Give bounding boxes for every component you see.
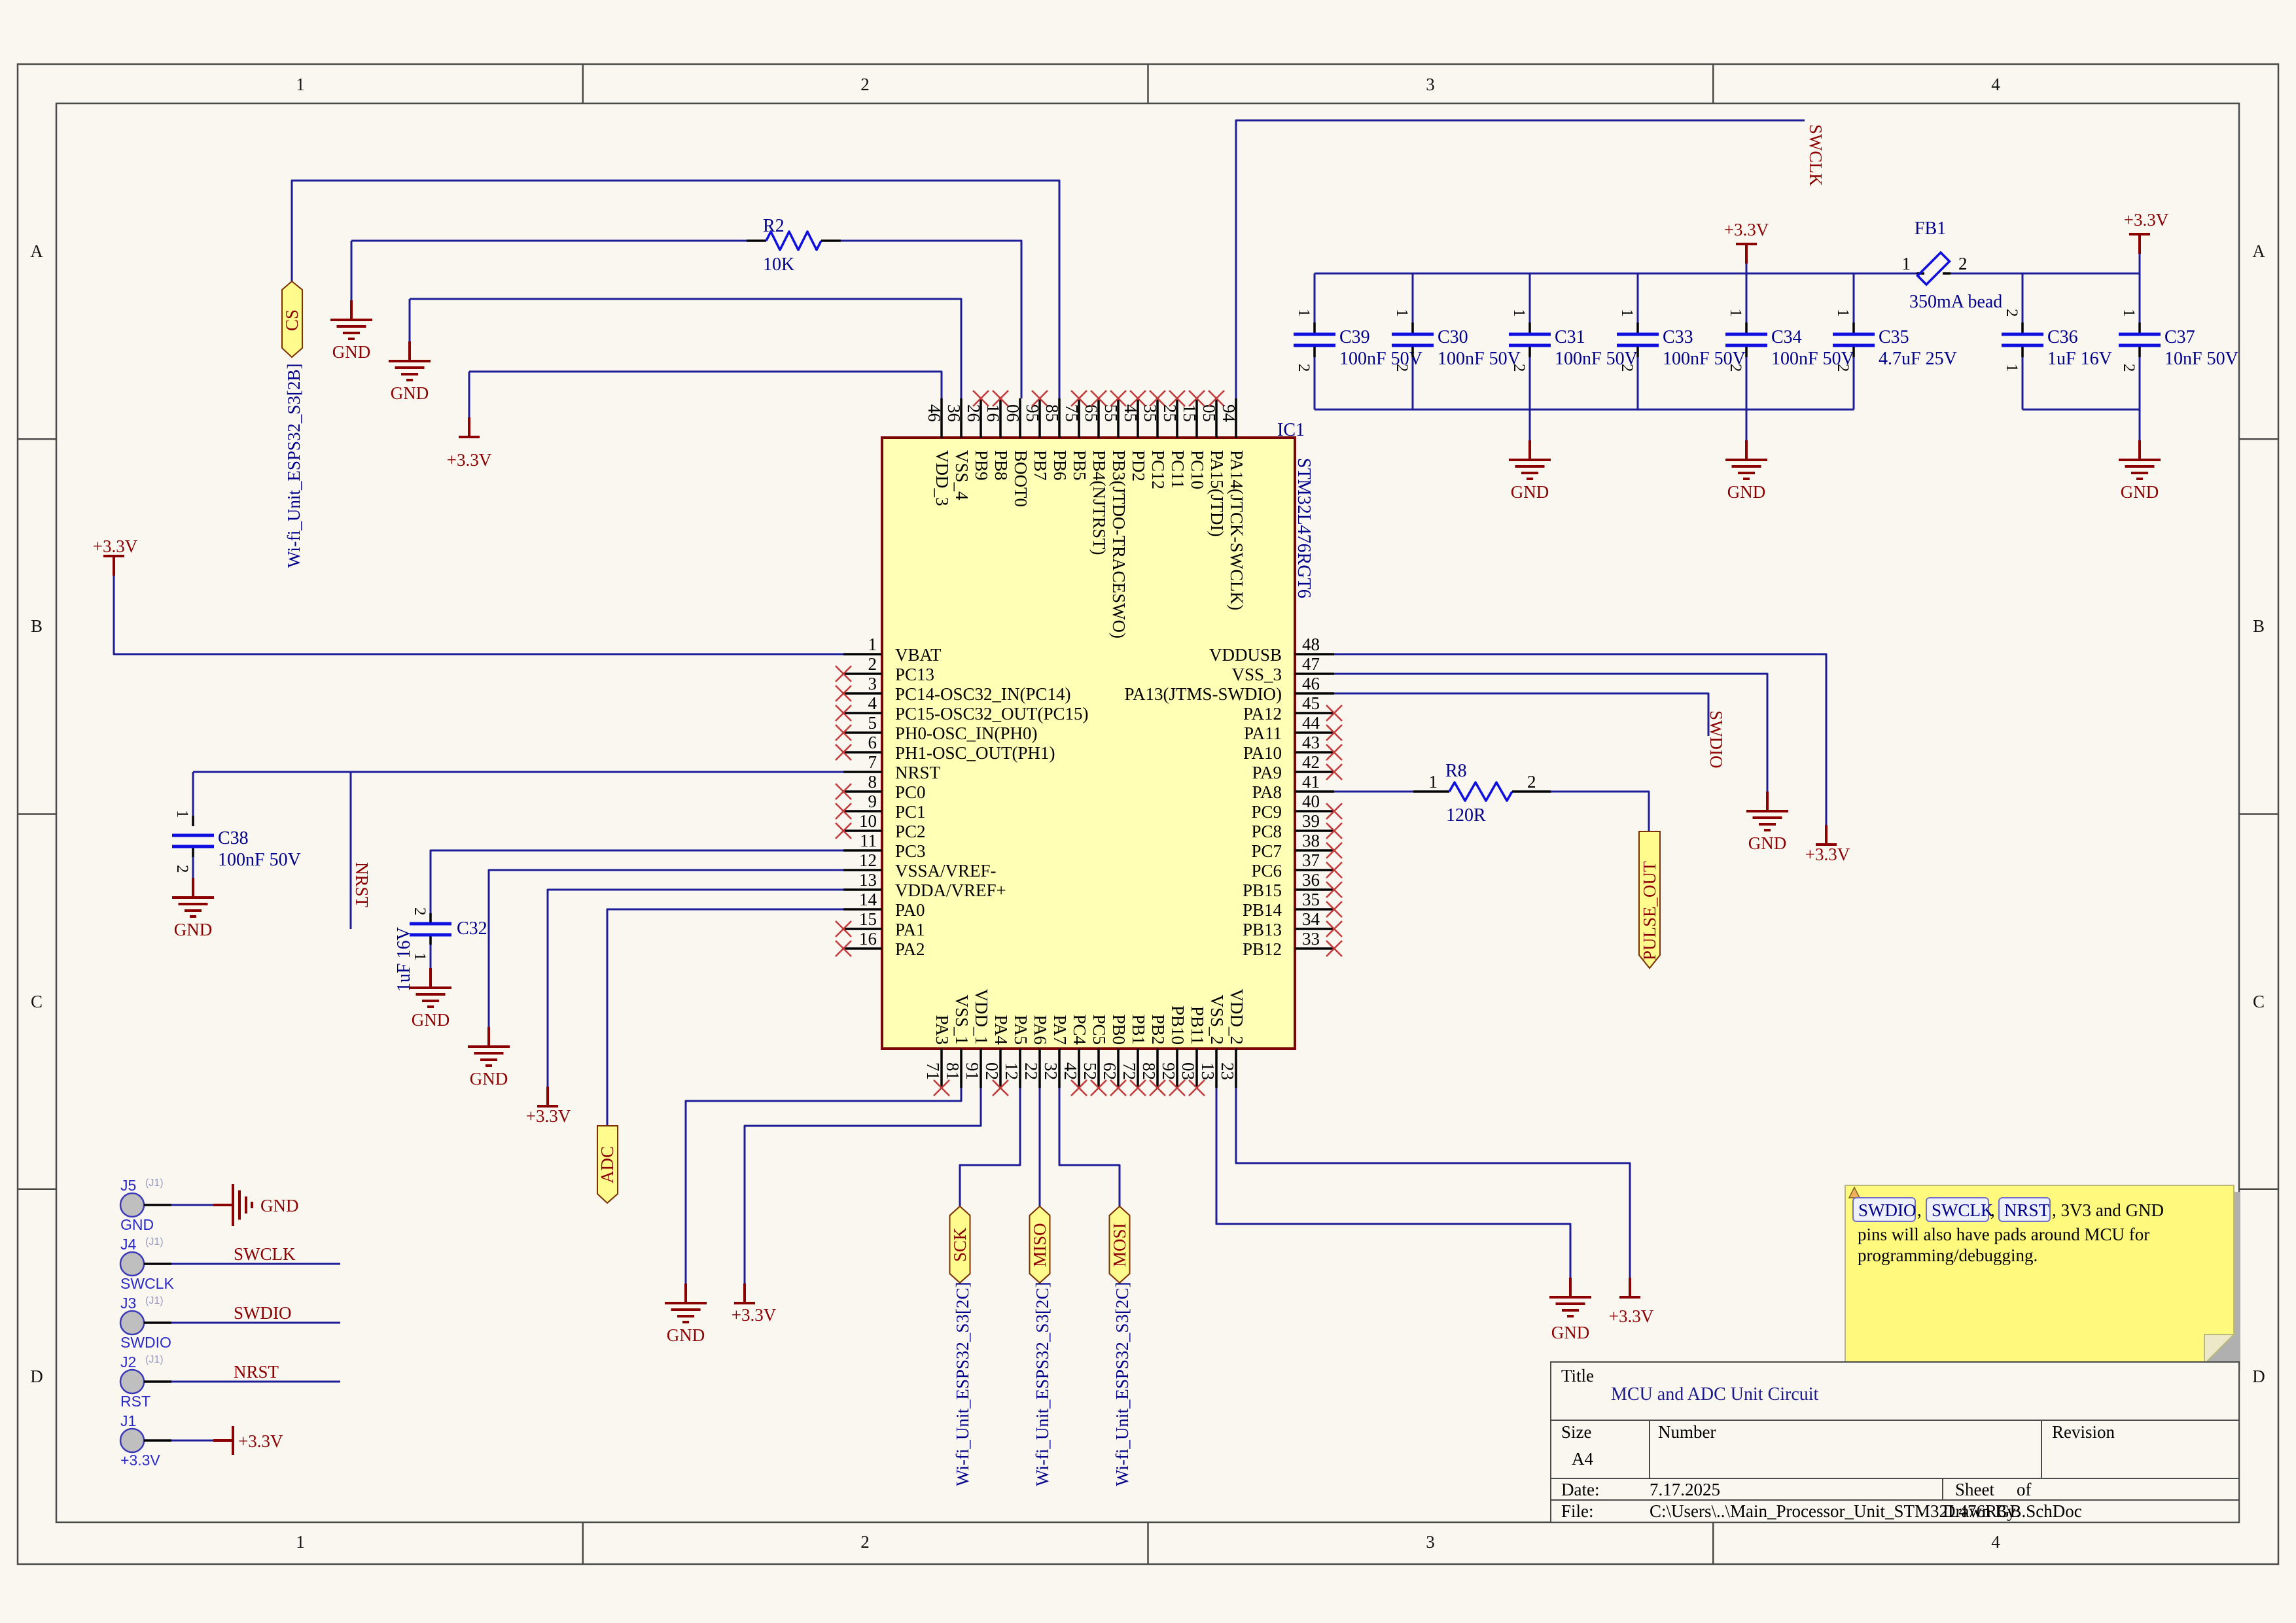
wire SCK pin21 [960,1088,1020,1208]
svg-text:Date:: Date: [1561,1480,1599,1499]
svg-text:PB0: PB0 [1109,1014,1129,1045]
svg-text:,: , [1990,1200,1995,1220]
svg-text:ADC: ADC [597,1146,617,1183]
svg-text:J3: J3 [120,1295,136,1312]
svg-text:42: 42 [1061,1062,1080,1080]
svg-text:programming/debugging.: programming/debugging. [1858,1246,2038,1265]
power +3.3V (VDDA) [526,1087,571,1126]
svg-text:GND: GND [470,1069,508,1089]
svg-text:PA4: PA4 [991,1015,1011,1045]
svg-text:GND: GND [1748,833,1787,853]
svg-text:VSS_1: VSS_1 [952,994,972,1045]
svg-text:9: 9 [868,792,877,811]
svg-text:13: 13 [1198,1062,1218,1080]
sheet entry label Wi-fi_Unit_ESPS32_S3[2C] [953,1282,972,1486]
svg-text:4: 4 [868,693,877,713]
pin 15 PA1 [836,909,925,939]
svg-text:R2: R2 [763,216,785,236]
svg-text:10K: 10K [763,254,794,275]
svg-text:PB13: PB13 [1243,920,1282,939]
svg-text:C31: C31 [1555,327,1585,347]
pin 27 PB1 [1120,1014,1148,1096]
svg-text:SWDIO: SWDIO [1706,710,1726,769]
capacitor C31 100nF 50V [1509,309,1638,372]
svg-text:Revision: Revision [2052,1422,2115,1442]
svg-text:1: 1 [868,635,877,654]
svg-text:92: 92 [1159,1062,1178,1080]
wire VSS_3 pin47 to gnd [1334,674,1767,792]
svg-text:C33: C33 [1663,327,1693,347]
svg-text:14: 14 [859,890,877,909]
wire to ground [409,299,411,341]
svg-text:File:: File: [1561,1501,1594,1521]
wire BOOT0 net left [351,240,747,242]
wire PA0 pin14 to ADC port [607,909,843,1126]
svg-text:C36: C36 [2047,327,2078,347]
svg-text:PC1: PC1 [895,802,926,822]
svg-text:1uF 16V: 1uF 16V [2047,349,2112,369]
svg-text:(J1): (J1) [145,1178,164,1189]
svg-text:+3.3V: +3.3V [120,1452,160,1469]
svg-text:VDDUSB: VDDUSB [1209,645,1282,665]
wire VSS_1 pin18 to gnd [686,1088,961,1283]
pin 26 PB0 [1100,1014,1129,1096]
svg-text:1: 1 [2120,309,2138,317]
svg-text:C30: C30 [1438,327,1468,347]
svg-text:D: D [2252,1367,2265,1386]
svg-text:25: 25 [1160,404,1180,422]
svg-text:2: 2 [1295,364,1313,372]
svg-text:A: A [2252,241,2265,261]
svg-text:45: 45 [1302,693,1320,713]
svg-text:R8: R8 [1445,761,1467,781]
svg-text:1: 1 [1727,309,1744,317]
wire VDDA pin13 [548,890,843,1087]
svg-text:GND: GND [412,1010,450,1030]
pin 50 PA15(JTDI) [1199,391,1227,537]
svg-text:1: 1 [1510,309,1528,317]
svg-text:GND: GND [667,1325,705,1345]
svg-text:NRST: NRST [2004,1200,2050,1220]
svg-text:PB6: PB6 [1050,450,1070,481]
svg-text:PC14-OSC32_IN(PC14): PC14-OSC32_IN(PC14) [895,684,1071,704]
wire gnd drop [1529,410,1531,440]
svg-text:2: 2 [1834,364,1852,372]
pin 53 PC12 [1140,391,1168,489]
svg-text:2: 2 [1393,364,1411,372]
power +3.3V (VDD_2) [1609,1278,1654,1326]
svg-text:2: 2 [1618,364,1636,372]
svg-text:94: 94 [1219,404,1239,423]
resistor R8 120R [1413,761,1551,826]
svg-text:16: 16 [859,929,877,949]
svg-text:4.7uF 25V: 4.7uF 25V [1879,349,1957,369]
svg-text:32: 32 [1041,1062,1061,1080]
svg-text:A: A [30,241,43,261]
svg-text:, 3V3 and GND: , 3V3 and GND [2052,1200,2164,1220]
svg-text:PA15(JTDI): PA15(JTDI) [1207,450,1227,537]
svg-text:NRST: NRST [352,862,372,908]
capacitor C38 100nF 50V [172,810,301,873]
svg-text:PB7: PB7 [1031,450,1050,481]
svg-text:03: 03 [1178,1062,1198,1080]
svg-text:PC2: PC2 [895,822,926,841]
svg-text:D: D [30,1367,43,1386]
pin 17 PA3 [923,1015,952,1096]
svg-text:PA6: PA6 [1031,1015,1050,1045]
ground GND [2119,440,2161,502]
IC IC1 STM32L476RGT6 MCU body [882,438,1295,1049]
svg-text:PH0-OSC_IN(PH0): PH0-OSC_IN(PH0) [895,724,1038,743]
svg-text:Title: Title [1561,1366,1594,1386]
wire +3.3V bus right [1951,273,2140,275]
wire GND bus right group [2022,409,2140,411]
wire cap C39 top [1314,273,1316,323]
svg-text:PA14(JTCK-SWCLK): PA14(JTCK-SWCLK) [1227,450,1246,610]
svg-text:J2: J2 [120,1353,136,1370]
svg-text:PC0: PC0 [895,782,926,802]
net label SWCLK [234,1244,296,1264]
svg-text:VSS_4: VSS_4 [952,450,972,500]
wire C38 to gnd [192,857,194,878]
pin 32 VDD_2 [1218,989,1246,1089]
svg-text:4: 4 [1991,75,2000,94]
svg-text:350mA bead: 350mA bead [1909,292,2002,312]
pin 18 VSS_1 [943,994,972,1088]
svg-text:95: 95 [1023,404,1042,422]
pin 35 PB14 [1243,890,1342,920]
svg-text:MOSI: MOSI [1110,1223,1129,1267]
svg-text:15: 15 [1180,404,1199,422]
pin 40 PC9 [1251,792,1342,822]
pin 28 PB2 [1139,1014,1168,1096]
svg-text:PA8: PA8 [1252,782,1282,802]
svg-text:PB12: PB12 [1243,939,1282,959]
title block [1551,1362,2239,1522]
pin 3 PC14-OSC32_IN(PC14) [836,674,1071,704]
svg-text:PC7: PC7 [1251,841,1282,861]
svg-text:91: 91 [963,1062,982,1080]
svg-text:IC1: IC1 [1277,420,1305,440]
svg-text:SWDIO: SWDIO [234,1303,292,1323]
svg-text:Drawn By:: Drawn By: [1943,1501,2021,1521]
pin 11 PC3 [843,831,926,861]
pin 48 VDDUSB [1209,635,1334,665]
pin 23 PA7 [1041,1015,1070,1088]
svg-text:PA1: PA1 [895,920,925,939]
ground GND (C38) [172,878,214,939]
svg-text:Wi-fi_Unit_ESPS32_S3[2C]: Wi-fi_Unit_ESPS32_S3[2C] [1112,1282,1132,1486]
svg-text:PB5: PB5 [1070,450,1089,481]
svg-text:VSSA/VREF-: VSSA/VREF- [895,861,997,881]
svg-text:J5: J5 [120,1177,136,1194]
svg-text:39: 39 [1302,811,1320,831]
capacitor C30 100nF 50V [1392,309,1521,372]
power +3.3V (VBAT) [93,536,138,576]
ground GND (VSS_1) [665,1283,707,1345]
wire BOOT0 net right to pin60 [841,241,1021,398]
wire VDD_3 pin64 [469,372,942,398]
pin 12 VSSA/VREF- [843,850,997,881]
svg-text:VSS_3: VSS_3 [1231,665,1282,684]
pin 55 PB3(JTDO-TRACESWO) [1101,391,1129,638]
svg-text:of: of [2017,1480,2032,1499]
svg-text:SWDIO: SWDIO [120,1334,171,1351]
wire J1 +3.3V [171,1440,233,1442]
svg-text:12: 12 [859,850,877,870]
capacitor C37 10nF 50V [2119,309,2238,372]
wire cap C35 bottom [1853,357,1855,410]
svg-text:02: 02 [982,1062,1002,1080]
svg-text:VDDA/VREF+: VDDA/VREF+ [895,881,1006,900]
pin 54 PD2 [1121,391,1148,481]
svg-text:35: 35 [1302,890,1320,909]
pin 60 BOOT0 [1003,398,1031,507]
svg-text:71: 71 [923,1062,943,1080]
svg-text:(J1): (J1) [145,1295,164,1306]
svg-text:C: C [31,992,43,1011]
pin 19 VDD_1 [963,989,991,1089]
svg-text:Sheet: Sheet [1955,1480,1994,1499]
svg-text:37: 37 [1302,850,1320,870]
svg-text:2: 2 [1527,772,1536,792]
pin 34 PB13 [1243,909,1342,939]
svg-text:VDD_2: VDD_2 [1227,989,1246,1045]
svg-text:1: 1 [173,810,191,818]
svg-text:23: 23 [1218,1062,1237,1080]
svg-text:2: 2 [1727,364,1744,372]
svg-text:PC11: PC11 [1168,450,1188,489]
pin 58 PB6 [1042,398,1070,481]
svg-text:05: 05 [1199,404,1219,422]
svg-text:SWCLK: SWCLK [234,1244,296,1264]
svg-text:Number: Number [1658,1422,1716,1442]
svg-text:22: 22 [1021,1062,1041,1080]
sheet entry label Wi-fi_Unit_ESPS32_S3[2C] [1112,1282,1132,1486]
svg-text:VBAT: VBAT [895,645,942,665]
port SCK [950,1206,970,1283]
net label SWDIO [1706,710,1726,769]
pin 24 PC4 [1061,1014,1089,1096]
svg-text:62: 62 [1100,1062,1120,1080]
svg-text:46: 46 [1302,674,1320,693]
svg-text:J4: J4 [120,1236,137,1253]
pin 38 PC7 [1251,831,1342,861]
wire PA8 pin41 to R8 [1334,791,1413,793]
pin 61 PB8 [983,391,1011,481]
svg-text:1: 1 [1429,772,1438,792]
svg-text:48: 48 [1302,635,1320,654]
svg-text:5: 5 [868,713,877,733]
svg-text:36: 36 [1302,870,1320,890]
svg-text:75: 75 [1062,404,1082,422]
pin 16 PA2 [836,929,925,959]
svg-text:B: B [31,616,43,636]
svg-text:GND: GND [1551,1323,1590,1342]
ground GND (VSSA) [468,1027,510,1089]
pin 29 PB10 [1159,1005,1188,1096]
svg-text:7.17.2025: 7.17.2025 [1650,1480,1720,1499]
svg-text:26: 26 [964,404,983,422]
svg-text:36: 36 [944,404,964,422]
svg-text:SCK: SCK [950,1227,970,1262]
svg-text:J1: J1 [120,1412,136,1429]
svg-text:PULSE_OUT: PULSE_OUT [1640,861,1659,960]
svg-text:100nF 50V: 100nF 50V [218,850,301,870]
pin 44 PA11 [1244,713,1342,743]
pin 6 PH1-OSC_OUT(PH1) [836,733,1055,763]
svg-text:PA0: PA0 [895,900,925,920]
svg-text:PC13: PC13 [895,665,934,684]
wire cap C36 top [2022,273,2024,323]
svg-text:65: 65 [1082,404,1101,422]
ground GND (C32) [410,968,451,1030]
svg-text:PA3: PA3 [932,1015,952,1045]
svg-text:PA2: PA2 [895,939,925,959]
svg-text:1: 1 [1902,254,1911,273]
svg-text:C38: C38 [218,828,249,848]
wire VDD_2 pin32 to power [1236,1088,1630,1278]
power +3.3V (VDD_3) [447,417,492,470]
svg-text:PC10: PC10 [1188,450,1207,489]
svg-text:MISO: MISO [1030,1223,1050,1267]
svg-text:1: 1 [1295,309,1313,317]
pin 42 PA9 [1252,752,1342,782]
svg-text:PB9: PB9 [972,450,991,481]
resistor R2 10K [747,216,841,275]
pin 4 PC15-OSC32_OUT(PC15) [836,693,1089,724]
svg-text:+3.3V: +3.3V [1805,845,1850,864]
svg-text:PB1: PB1 [1129,1014,1148,1045]
svg-text:2: 2 [860,75,870,94]
pin 14 PA0 [843,890,925,920]
svg-text:C37: C37 [2164,327,2195,347]
ferrite bead FB1 350mA bead [1902,218,2003,312]
svg-text:PB15: PB15 [1243,881,1282,900]
svg-text:47: 47 [1302,654,1320,674]
wire J2 NRST [171,1381,340,1383]
svg-text:PC6: PC6 [1251,861,1282,881]
svg-text:FB1: FB1 [1915,218,1946,239]
connector J4 [120,1236,174,1292]
svg-text:72: 72 [1120,1062,1139,1080]
svg-text:PC3: PC3 [895,841,926,861]
wire power stem [2139,254,2141,273]
wire cap C34 top [1746,273,1748,323]
wire gnd drop [2139,410,2141,440]
svg-text:4: 4 [1991,1532,2000,1552]
net label SWDIO [234,1303,292,1323]
svg-text:2: 2 [860,1532,870,1552]
svg-text:C34: C34 [1771,327,1802,347]
wire J3 SWDIO [171,1322,340,1324]
svg-text:,: , [1917,1200,1922,1220]
svg-text:C35: C35 [1879,327,1909,347]
svg-text:PB2: PB2 [1148,1014,1168,1045]
svg-text:C32: C32 [457,918,487,939]
svg-text:81: 81 [943,1062,963,1080]
svg-text:11: 11 [860,831,877,850]
svg-text:PC8: PC8 [1251,822,1282,841]
capacitor C39 100nF 50V [1294,309,1422,372]
svg-text:40: 40 [1302,792,1320,811]
svg-text:C: C [2253,992,2265,1011]
svg-text:2: 2 [2120,364,2138,372]
svg-text:(J1): (J1) [145,1354,164,1365]
wire power stem [1746,264,1748,273]
pin 25 PC5 [1080,1014,1109,1096]
svg-text:A4: A4 [1572,1449,1593,1469]
svg-text:PA7: PA7 [1050,1015,1070,1045]
svg-text:34: 34 [1302,909,1320,929]
svg-text:PA10: PA10 [1243,743,1282,763]
svg-text:NRST: NRST [895,763,941,782]
wire to C38 [192,772,194,816]
pin 21 PA5 [1002,1015,1031,1088]
wire cap C39 bottom [1314,357,1316,410]
port ADC [597,1126,618,1203]
net label NRST [234,1362,279,1382]
svg-text:NRST: NRST [234,1362,279,1382]
port CS [282,281,302,357]
svg-text:+3.3V: +3.3V [526,1106,571,1126]
pin 2 PC13 [836,654,934,684]
capacitor C36 1uF 16V [2002,309,2112,372]
wire NRST pin7 [193,771,843,773]
ground GND (J5, rotated) [213,1184,252,1226]
svg-text:16: 16 [983,404,1003,422]
net label NRST [352,862,372,908]
pin 51 PC10 [1180,391,1207,489]
pin 39 PC8 [1251,811,1342,841]
svg-text:GND: GND [1727,482,1766,502]
svg-text:85: 85 [1042,404,1062,422]
wire to ground [351,241,353,300]
svg-text:+3.3V: +3.3V [447,450,492,470]
wire gnd drop [1746,410,1748,440]
svg-text:SWCLK: SWCLK [120,1275,174,1292]
power +3.3V (VDDUSB) [1805,825,1850,864]
connector J5 [120,1177,171,1233]
svg-text:C39: C39 [1339,327,1370,347]
wire VSSA pin12 [489,870,843,1027]
svg-text:PA12: PA12 [1243,704,1282,724]
capacitor C34 100nF 50V [1725,309,1854,372]
svg-text:CS: CS [282,309,302,331]
svg-text:VSS_2: VSS_2 [1207,994,1227,1045]
svg-text:PA11: PA11 [1244,724,1282,743]
svg-text:7: 7 [868,752,877,772]
wire VBAT pin1 [114,576,843,654]
wire NRST stub [350,772,352,929]
wire cap C31 top [1529,273,1531,323]
sheet entry label Wi-fi_Unit_ESPS32_S3[2C] [1033,1282,1052,1486]
pin 47 VSS_3 [1231,654,1334,684]
svg-text:8: 8 [868,772,877,792]
wire MOSI pin23 [1059,1088,1120,1208]
svg-text:6: 6 [868,733,877,752]
svg-text:2: 2 [173,865,191,873]
svg-text:2: 2 [1958,254,1968,273]
pin 59 PB7 [1023,391,1050,481]
wire cap C34 bottom [1746,357,1748,410]
svg-text:(J1): (J1) [145,1236,164,1248]
pin 7 NRST [843,752,941,782]
svg-text:100nF 50V: 100nF 50V [1438,349,1521,369]
svg-text:1: 1 [296,75,305,94]
svg-text:42: 42 [1302,752,1320,772]
designator IC1 [1277,420,1305,440]
